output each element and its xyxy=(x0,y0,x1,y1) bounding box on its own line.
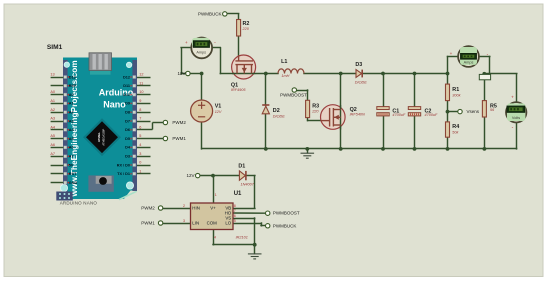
svg-text:Nano: Nano xyxy=(103,100,126,110)
svg-text:D11: D11 xyxy=(123,84,130,88)
svg-text:4: 4 xyxy=(214,235,216,239)
svg-text:1mH: 1mH xyxy=(281,74,289,78)
svg-text:HIN: HIN xyxy=(192,205,200,210)
svg-text:PWM1: PWM1 xyxy=(141,220,155,225)
svg-text:5: 5 xyxy=(139,134,141,138)
svg-text:GND: GND xyxy=(69,181,78,185)
svg-text:PWMBOOST: PWMBOOST xyxy=(280,93,307,98)
svg-text:A5: A5 xyxy=(50,134,55,138)
svg-text:0: 0 xyxy=(139,161,141,165)
svg-text:300k: 300k xyxy=(452,94,461,98)
svg-text:D9: D9 xyxy=(125,102,130,106)
svg-text:D13: D13 xyxy=(69,75,76,79)
svg-text:220: 220 xyxy=(242,27,250,31)
svg-text:IRF4905: IRF4905 xyxy=(231,88,246,92)
svg-text:A0: A0 xyxy=(69,93,74,97)
svg-text:10: 10 xyxy=(139,90,143,94)
svg-text:4: 4 xyxy=(139,143,141,147)
svg-text:A2: A2 xyxy=(69,111,74,115)
svg-text:Volts: Volts xyxy=(512,116,520,120)
svg-text:V+: V+ xyxy=(210,205,216,210)
svg-text:SIM1: SIM1 xyxy=(47,44,63,51)
svg-text:+: + xyxy=(450,51,453,56)
svg-text:7: 7 xyxy=(139,117,141,121)
svg-text:D7: D7 xyxy=(125,119,130,123)
svg-text:PWM2: PWM2 xyxy=(172,120,186,125)
svg-text:D3: D3 xyxy=(125,155,130,159)
svg-text:5V: 5V xyxy=(69,163,74,167)
svg-text:4700uF: 4700uF xyxy=(392,113,406,117)
svg-text:ATMEL: ATMEL xyxy=(97,132,101,142)
svg-text:1: 1 xyxy=(215,193,217,197)
svg-text:Amps: Amps xyxy=(464,61,474,65)
svg-text:A0: A0 xyxy=(50,90,55,94)
svg-text:12V: 12V xyxy=(215,110,222,114)
svg-text:V1: V1 xyxy=(215,104,222,110)
svg-text:9: 9 xyxy=(139,99,141,103)
svg-text:D1: D1 xyxy=(238,163,245,169)
svg-text:+: + xyxy=(511,95,514,100)
svg-text:D10: D10 xyxy=(123,93,130,97)
svg-text:ATMEGA328P: ATMEGA328P xyxy=(102,129,106,146)
svg-text:8: 8 xyxy=(234,204,236,208)
svg-text:13: 13 xyxy=(50,73,54,77)
svg-text:A6: A6 xyxy=(50,143,55,147)
svg-text:D2: D2 xyxy=(273,108,280,114)
svg-text:2: 2 xyxy=(183,204,185,208)
svg-text:Vsens: Vsens xyxy=(467,109,480,114)
svg-text:PWMBUCK: PWMBUCK xyxy=(273,223,297,228)
svg-text:A5: A5 xyxy=(69,137,74,141)
svg-text:A7: A7 xyxy=(50,152,55,156)
svg-text:R4: R4 xyxy=(452,124,459,130)
svg-text:6: 6 xyxy=(234,214,236,218)
svg-text:A1: A1 xyxy=(69,102,74,106)
svg-text:RST: RST xyxy=(69,172,77,176)
svg-text:RX / D0: RX / D0 xyxy=(117,163,130,167)
svg-text:IR2101: IR2101 xyxy=(236,236,248,240)
svg-text:D6: D6 xyxy=(125,128,130,132)
svg-text:DIODE: DIODE xyxy=(273,114,285,118)
svg-text:IRF540N: IRF540N xyxy=(350,112,365,116)
svg-text:11: 11 xyxy=(139,81,143,85)
svg-text:A3: A3 xyxy=(69,119,74,123)
svg-text:3: 3 xyxy=(183,219,185,223)
svg-text:D3: D3 xyxy=(355,62,362,68)
svg-text:12: 12 xyxy=(139,73,143,77)
svg-text:PWM1: PWM1 xyxy=(172,136,186,141)
svg-text:LO: LO xyxy=(225,220,231,225)
svg-text:PWMBUCK: PWMBUCK xyxy=(198,11,222,16)
svg-text:Amps: Amps xyxy=(196,50,206,54)
svg-text:D5: D5 xyxy=(125,137,130,141)
svg-text:7: 7 xyxy=(234,209,236,213)
svg-text:3: 3 xyxy=(139,152,141,156)
svg-text:TX / D1: TX / D1 xyxy=(117,172,130,176)
svg-text:8: 8 xyxy=(139,108,141,112)
svg-text:6: 6 xyxy=(139,125,141,129)
svg-text:A4: A4 xyxy=(50,125,55,129)
svg-text:D12: D12 xyxy=(123,75,130,79)
svg-text:1N4007: 1N4007 xyxy=(241,182,255,186)
svg-text:A7: A7 xyxy=(69,155,74,159)
svg-text:1: 1 xyxy=(139,169,141,173)
svg-text:U1: U1 xyxy=(234,191,242,197)
svg-text:PWMBOOST: PWMBOOST xyxy=(273,211,300,216)
svg-text:D8: D8 xyxy=(125,111,130,115)
svg-text:A1: A1 xyxy=(50,99,55,103)
svg-text:A2: A2 xyxy=(50,108,55,112)
svg-text:A3: A3 xyxy=(50,117,55,121)
svg-text:ARDUINO NANO: ARDUINO NANO xyxy=(60,201,98,206)
svg-text:A6: A6 xyxy=(69,146,74,150)
svg-text:REF: REF xyxy=(69,84,77,88)
svg-text:PWM2: PWM2 xyxy=(141,205,155,210)
svg-text:220: 220 xyxy=(311,110,319,114)
svg-text:4700uF: 4700uF xyxy=(425,113,439,117)
svg-text:12V: 12V xyxy=(186,173,194,178)
svg-text:R1: R1 xyxy=(452,87,459,93)
svg-text:5: 5 xyxy=(234,219,236,223)
svg-text:+: + xyxy=(185,40,188,45)
svg-text:12V: 12V xyxy=(177,71,185,76)
svg-text:LIN: LIN xyxy=(192,220,199,225)
svg-text:DIODE: DIODE xyxy=(355,80,367,84)
svg-text:L1: L1 xyxy=(281,59,287,65)
svg-text:COM: COM xyxy=(207,220,218,225)
